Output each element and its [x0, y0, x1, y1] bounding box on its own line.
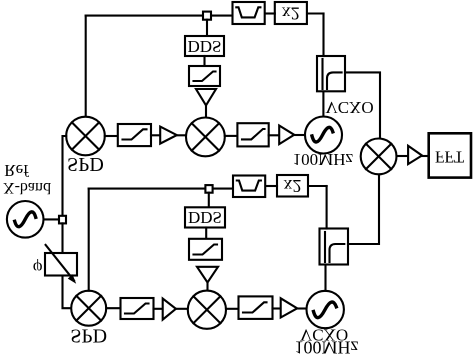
wire J0 down to phase shifter [61, 223, 63, 253]
wire x2b down to S2 [326, 186, 328, 229]
DDS2 box [185, 207, 225, 227]
source OSC Ref X-band [7, 201, 44, 238]
label DDS2 [188, 208, 222, 227]
filter F3 [121, 298, 154, 319]
svg-text:X-band: X-band [3, 179, 51, 196]
filter F1 [118, 124, 151, 146]
filter F2 response icon [242, 129, 265, 139]
wire bottom bus down to SPD2 [88, 189, 90, 291]
filter BPF1 (bandpass) [233, 2, 265, 24]
label SPD2 [70, 325, 107, 347]
wire F4 to amp A6 [273, 307, 281, 309]
svg-text:x2: x2 [284, 176, 302, 196]
wire top bus horizontal [86, 15, 233, 17]
amplifier A2 [160, 127, 177, 144]
wire top bus down to SPD1 [85, 16, 87, 117]
doubler X2A box [275, 2, 307, 24]
phase shifter PS1 arrow [46, 245, 74, 281]
wire DDS1 to LPF1 [203, 56, 205, 66]
wire A7 to FFT [422, 155, 429, 157]
filter LPF2 (DDS bottom chain) [189, 239, 222, 260]
filter F3 response icon [125, 304, 149, 314]
svg-text:DDS: DDS [188, 208, 222, 227]
svg-text:φ: φ [33, 259, 43, 278]
wire SPD2 to F3 [106, 307, 120, 309]
label SPD1 [67, 153, 104, 175]
splitter S2 through line [324, 232, 326, 262]
splitter S1 (coupler box) [317, 56, 345, 91]
svg-text:SPD: SPD [70, 325, 107, 347]
filter BPF2 response icon [237, 181, 261, 191]
svg-text:Ref: Ref [4, 161, 29, 180]
amplifier A1 (down) [196, 89, 216, 105]
wire S2 to final mixer bottom [348, 175, 379, 245]
label X-band [3, 179, 51, 196]
wire J1 to DDS1 [206, 20, 208, 36]
filter F2 [237, 123, 268, 146]
wire A1 to mixer M1 [205, 105, 207, 118]
label 100MHz bottom [295, 337, 359, 357]
wire M1 to F2 [225, 135, 238, 137]
mixer SPD2 [71, 291, 106, 326]
amplifier A5 [163, 299, 176, 320]
amplifier A6 [281, 298, 298, 317]
oscillator VCXO1 100MHz [305, 117, 342, 154]
oscillator VCXO2 100MHz [307, 291, 344, 328]
wire M3 to amp A7 [397, 155, 409, 157]
svg-text:FFT: FFT [435, 147, 465, 166]
filter LPF1 response icon [194, 72, 216, 82]
filter F4 [239, 296, 273, 319]
wire x2b to corner [308, 185, 327, 187]
svg-text:100MHz: 100MHz [293, 150, 354, 169]
wire BPF2 to X2B [265, 185, 277, 187]
filter BPF2 (bandpass) [233, 176, 265, 198]
label VCXO1 [325, 98, 373, 117]
splitter S1 tap curve [327, 72, 342, 89]
wire M2 to F4 [226, 308, 239, 310]
wire F3 to amp A5 [154, 308, 163, 310]
node J0 (splitter square) [59, 216, 66, 224]
svg-text:100MHz: 100MHz [295, 337, 359, 357]
filter F1 response icon [123, 129, 147, 139]
wire A4 to mixer M2 [206, 283, 208, 292]
svg-text:SPD: SPD [67, 153, 104, 175]
svg-text:x2: x2 [282, 3, 300, 23]
filter LPF1 (DDS top chain) [189, 66, 220, 86]
label FFT [435, 147, 465, 166]
svg-text:DDS: DDS [187, 37, 221, 56]
wire F1 to amp A2 [151, 134, 160, 136]
wire x2a to corner [307, 12, 324, 14]
wire x2a down to S1 [322, 14, 324, 57]
DDS1 box [185, 36, 224, 56]
label x2 top [282, 3, 300, 23]
splitter S2 tap curve [330, 244, 345, 262]
wire A5 to M2 [176, 308, 188, 310]
label DDS1 [187, 37, 221, 56]
mixer M3 (final cross mixer) [361, 139, 397, 175]
wire SPD1 to F1 [105, 135, 118, 137]
wire PS1 to SPD2 [63, 276, 72, 309]
wire ref to SPD1 left input [63, 136, 67, 216]
wire J2 to DDS2 [208, 193, 210, 208]
node J1 (top tap square) [203, 12, 211, 20]
amplifier A7 [408, 146, 422, 164]
wire source to node J0 [44, 218, 60, 220]
FFT box [429, 133, 471, 177]
phase shifter PS1 box [45, 253, 77, 276]
wire BPF1 to X2A [265, 12, 275, 14]
svg-text:VCXO: VCXO [325, 98, 373, 117]
splitter S2 (coupler box) [320, 229, 349, 265]
filter F4 response icon [243, 302, 267, 312]
label x2 bottom [284, 176, 302, 196]
filter LPF2 response icon [194, 245, 218, 255]
label Ref [4, 161, 29, 180]
splitter S1 through line [321, 59, 323, 89]
node J2 (bottom tap square) [205, 185, 212, 193]
label VCXO2 [300, 326, 348, 345]
wire VCXO2 to splitter S2 [324, 265, 326, 291]
amplifier A3 [279, 126, 294, 145]
wire bottom bus horizontal [89, 188, 233, 190]
mixer M2 [188, 291, 226, 329]
wire A6 to VCXO2 [297, 307, 307, 309]
filter BPF1 response icon [236, 7, 260, 17]
wire S1 to final mixer top [345, 72, 380, 138]
label 100MHz top [293, 150, 354, 169]
mixer SPD1 [66, 117, 105, 156]
wire A2 to M1 [177, 134, 186, 136]
label phi [33, 259, 43, 278]
mixer M1 [186, 117, 225, 156]
doubler X2B box [277, 175, 308, 197]
wire A3 to VCXO1 [294, 134, 305, 136]
wire DDS2 to LPF2 [205, 228, 207, 239]
wire VCXO1 to splitter S1 [322, 91, 324, 116]
amplifier A4 (down) [197, 267, 218, 283]
wire F2 to amp A3 [269, 134, 280, 136]
